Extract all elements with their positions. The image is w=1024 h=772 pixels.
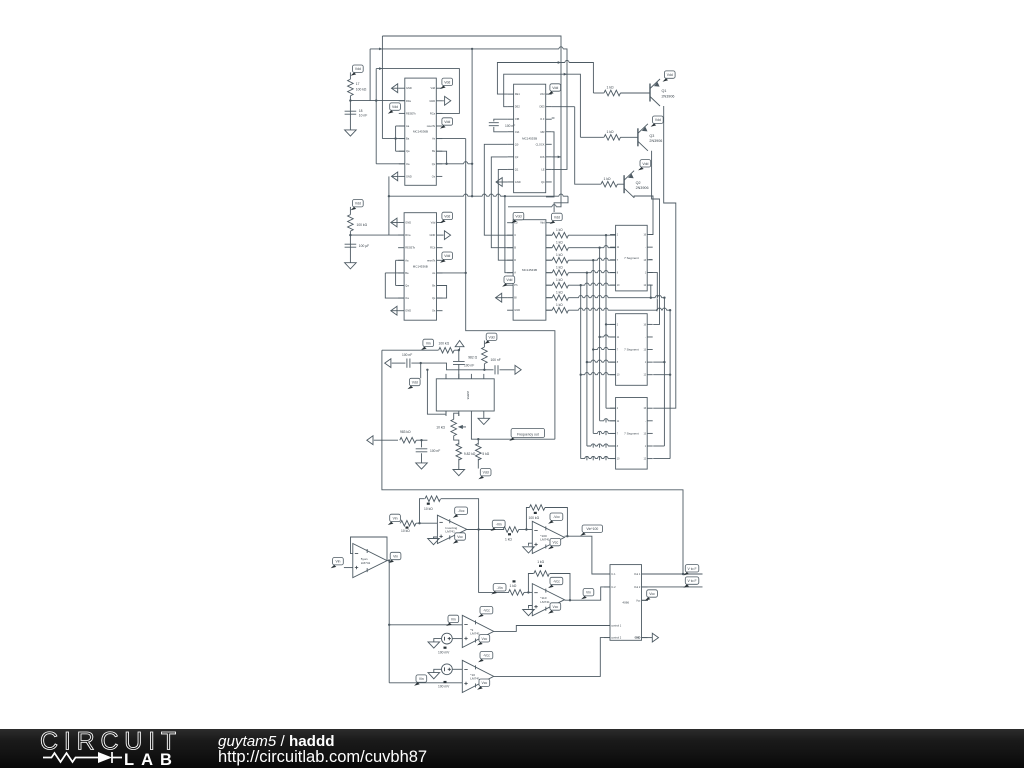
- svg-text:Vdd: Vdd: [431, 221, 436, 225]
- svg-text:100 nF: 100 nF: [505, 124, 515, 128]
- ground 983k cap: [416, 463, 428, 469]
- svg-text:LM555: LM555: [466, 391, 470, 400]
- resistor 1k segment c: [552, 257, 568, 263]
- wire IC2 DE1 loop: [497, 63, 561, 95]
- svg-text:Vdd: Vdd: [355, 202, 361, 206]
- capacitor C 100nF input: [407, 359, 410, 368]
- wire Vin row: [382, 349, 439, 351]
- svg-text:10 kΩ: 10 kΩ: [436, 426, 445, 430]
- ground op2 plus: [434, 537, 438, 539]
- svg-text:1 kΩ: 1 kΩ: [556, 266, 563, 270]
- svg-text:2N3906: 2N3906: [649, 139, 662, 143]
- op-amp U10 LM741 x10: [462, 660, 493, 692]
- svg-text:Aa: Aa: [406, 124, 410, 128]
- net flag -Vin op4: [491, 584, 506, 595]
- svg-text:Vin: Vin: [393, 516, 398, 520]
- resistor 1k segment d: [552, 270, 568, 276]
- net flag Vin op2 in: [388, 514, 401, 525]
- resistor 100k op3 fb: [529, 505, 545, 511]
- wire IC2 Q2 to IC4 B: [491, 157, 513, 248]
- net flag Frequency out: [509, 429, 544, 441]
- wire op5 out to control1: [494, 626, 610, 632]
- svg-text:Q2: Q2: [636, 181, 641, 185]
- power flag Vdd IC1 resetTs: [440, 118, 453, 129]
- power flag Vdd IC3: [440, 212, 453, 223]
- wire to 7seg2 pin 0: [606, 323, 616, 325]
- svg-text:Ba: Ba: [406, 137, 410, 141]
- svg-text:C: C: [514, 233, 516, 237]
- svg-text:-Vcc: -Vcc: [458, 509, 465, 513]
- svg-text:LAB: LAB: [124, 751, 179, 769]
- power flag Vcc op2: [453, 533, 466, 544]
- power flag Vdd IC1 pin Vdd: [440, 78, 453, 89]
- svg-text:BI: BI: [514, 296, 517, 300]
- power flag Vdd 555 left: [408, 378, 421, 389]
- wire bus y196: [389, 195, 568, 197]
- svg-text:-Vin: -Vin: [496, 522, 502, 526]
- wire 7seg1 pin1 hook: [649, 273, 658, 311]
- capacitor 100uF IC3: [345, 244, 357, 247]
- svg-text:1 kΩ: 1 kΩ: [510, 584, 517, 588]
- wire top rail B to IC2 LE: [370, 49, 567, 169]
- wire IC2 DE3 to Q2 base: [575, 107, 601, 185]
- power flag Vcc op6: [477, 679, 490, 690]
- transistor Q1 2N3906: [650, 79, 674, 106]
- wire op4 fb right: [550, 574, 570, 601]
- svg-text:Vdd: Vdd: [483, 471, 489, 475]
- wire op6 out to control2: [494, 638, 610, 677]
- wire segment c row: [568, 259, 615, 261]
- wire op1 feedback: [351, 537, 388, 561]
- svg-text:-Vcc: -Vcc: [483, 609, 490, 613]
- svg-text:2N3906: 2N3906: [636, 186, 649, 190]
- wire DE1 to Q1 base: [561, 63, 593, 94]
- svg-text:Vin: Vin: [393, 555, 398, 559]
- IC 555 timer box: [436, 379, 494, 411]
- wire input cap to 555 net: [411, 363, 484, 370]
- wire segment f vertical: [663, 298, 665, 446]
- wire bus vertical a: [605, 235, 607, 408]
- wire segment g row: [568, 309, 670, 311]
- svg-text:GND: GND: [429, 99, 435, 103]
- net flag Vin op4 out: [581, 589, 594, 600]
- svg-text:Q4: Q4: [541, 180, 545, 184]
- svg-text:Q0: Q0: [515, 142, 519, 146]
- capacitor C9 100nF plates: [489, 123, 499, 126]
- svg-text:Vdd: Vdd: [444, 214, 450, 218]
- svg-text:Vdd: Vdd: [489, 335, 495, 339]
- wire to 5k: [477, 439, 479, 445]
- wire Q1 base: [620, 92, 650, 94]
- display 7-segment D2: [610, 314, 653, 386]
- wire big loop to V-to-F: [382, 350, 683, 574]
- wire 7seg1 pin13 dash: [649, 259, 653, 261]
- net flag Vin op5: [446, 615, 459, 626]
- svg-text:2N3906: 2N3906: [662, 94, 675, 98]
- wire op2 out down to op4: [479, 530, 509, 593]
- svg-text:LM741: LM741: [540, 600, 550, 604]
- svg-text:OIA: OIA: [515, 130, 520, 134]
- resistor 10k op2 in: [400, 520, 416, 526]
- svg-text:Vcc: Vcc: [457, 535, 463, 539]
- wire segment e row: [568, 284, 615, 286]
- IC U1 MC14536B: [399, 78, 443, 185]
- resistor 1k op4 in: [508, 590, 524, 596]
- svg-text:Vdd: Vdd: [392, 105, 398, 109]
- svg-text:100 kΩ: 100 kΩ: [529, 516, 540, 520]
- svg-text:Vin: Vin: [586, 591, 591, 595]
- CircuitLab logo: [41, 730, 176, 772]
- svg-text:GND: GND: [406, 174, 412, 178]
- svg-text:Vin: Vin: [426, 341, 431, 345]
- power flag Vdd 5k: [478, 469, 491, 480]
- IC U3 MC14536B: [398, 213, 442, 321]
- wire to 7seg3 pin 0: [606, 407, 616, 409]
- wire Out1: [642, 573, 703, 575]
- wire IC3 Oa: [385, 273, 404, 298]
- resistor 1k segment e: [552, 282, 568, 288]
- ground: [428, 539, 440, 545]
- svg-text:RESETs: RESETs: [405, 246, 415, 250]
- svg-text:Q2: Q2: [515, 155, 519, 159]
- power flag Vdd R in IC3: [351, 200, 364, 211]
- wire branch to right column: [554, 196, 568, 212]
- capacitor C 100nF low: [416, 449, 428, 452]
- resistor 100k 555: [439, 347, 455, 353]
- svg-text:resetTs: resetTs: [427, 258, 436, 262]
- svg-text:10 kΩ: 10 kΩ: [424, 507, 433, 511]
- transistor Q2 2N3906: [624, 171, 648, 198]
- wire segment f to 7seg2: [653, 361, 664, 363]
- svg-text:Vcc: Vcc: [553, 541, 559, 545]
- resistor R17 100k: [348, 79, 354, 96]
- svg-text:V to F: V to F: [688, 567, 697, 571]
- wire op3 minus: [519, 529, 533, 531]
- wire op6 plus: [389, 682, 462, 684]
- port right 555 out: [515, 365, 521, 374]
- svg-text:MC14553B: MC14553B: [522, 136, 537, 140]
- wire R to cap/gnd: [349, 231, 351, 263]
- svg-text:LM741: LM741: [470, 632, 480, 636]
- ground IC1 RC: [345, 130, 357, 136]
- port GND IC1 right: [445, 96, 451, 105]
- power flag -Vcc op6: [478, 652, 493, 663]
- svg-text:DIS: DIS: [540, 155, 545, 159]
- port GND 4066: [652, 633, 658, 642]
- wire IC1 Qs to bus: [447, 163, 473, 165]
- svg-text:Ph: Ph: [514, 283, 518, 287]
- svg-text:In 1: In 1: [611, 572, 616, 576]
- footer bar: [0, 729, 1024, 768]
- svg-text:100 kΩ: 100 kΩ: [439, 342, 450, 346]
- wire rail x370: [369, 49, 371, 101]
- resistor 5k: [476, 443, 482, 460]
- svg-text:RCb: RCb: [430, 246, 436, 250]
- wire to cap 100nF low: [421, 440, 423, 447]
- power flag Vdd Q3: [651, 116, 664, 127]
- wire 983k input: [367, 436, 373, 445]
- svg-text:4066: 4066: [622, 600, 629, 604]
- svg-text:Vdd: Vdd: [430, 86, 435, 90]
- wire IC1 As to long vertical: [436, 138, 465, 140]
- net flag V to F 1: [683, 565, 698, 576]
- ground 555: [478, 418, 490, 424]
- wire vdd to R: [349, 207, 351, 215]
- svg-text:100 nF: 100 nF: [491, 358, 501, 362]
- wire Out2: [642, 586, 703, 588]
- svg-text:1 kΩ: 1 kΩ: [556, 253, 563, 257]
- wire bus to IC4 A: [505, 196, 513, 273]
- wire op3 fb right: [545, 508, 567, 537]
- svg-text:GND: GND: [635, 637, 641, 640]
- wire to 7seg2 pin 4: [581, 374, 616, 376]
- wire rail to IC1 Oa: [376, 163, 405, 165]
- wire segment g to 7seg3: [653, 458, 670, 460]
- ground op3 plus: [529, 543, 533, 546]
- svg-text:Out 2: Out 2: [634, 585, 641, 589]
- svg-text:-Vcc: -Vcc: [553, 580, 560, 584]
- wire 555 pin2 to pot: [458, 413, 460, 416]
- IC U11 4066 switch: [604, 565, 648, 641]
- svg-text:Aa: Aa: [405, 258, 409, 262]
- display 7-segment D1: [610, 225, 653, 291]
- svg-text:Vin: Vin: [451, 617, 456, 621]
- svg-text:1 kΩ: 1 kΩ: [556, 291, 563, 295]
- svg-text:10 kΩ: 10 kΩ: [401, 529, 410, 533]
- wire IC1 RCa loop: [376, 69, 459, 114]
- svg-text:7 Segment: 7 Segment: [624, 256, 639, 260]
- svg-text:GND: GND: [514, 308, 520, 312]
- svg-text:D: D: [514, 258, 516, 262]
- svg-text:5 kΩ: 5 kΩ: [482, 452, 489, 456]
- svg-text:-Vcc: -Vcc: [553, 515, 560, 519]
- IC U4 output pin stubs: [546, 234, 552, 236]
- svg-text:Vdd: Vdd: [444, 120, 450, 124]
- svg-text:Oa: Oa: [406, 162, 410, 166]
- wire IC1 Bs-Qs loop: [436, 151, 446, 164]
- power flag Vdd IC3 resetTs: [440, 252, 453, 263]
- svg-text:O.F: O.F: [540, 117, 545, 121]
- svg-text:100 nF: 100 nF: [402, 353, 412, 357]
- resistor 100k IC3: [348, 215, 354, 232]
- capacitor C 100nF IC2: [494, 119, 508, 121]
- svg-text:100 kΩ: 100 kΩ: [357, 223, 368, 227]
- op-amp U8 LM741 x110: [532, 584, 564, 616]
- wire IC3 Aa-Qa loop: [395, 260, 397, 285]
- wire to 7seg2 pin 2: [593, 349, 615, 351]
- svg-text:GND: GND: [515, 180, 521, 184]
- power flag Vdd R17: [351, 65, 364, 76]
- power flag Vdd IC4 Ph: [502, 276, 515, 287]
- svg-text:GND: GND: [406, 86, 412, 90]
- svg-text:100 kΩ: 100 kΩ: [356, 88, 367, 92]
- op-amp U7 LM741 x100: [532, 521, 564, 553]
- wire source to op5 plus: [452, 638, 462, 640]
- power flag Vdd Q1: [663, 71, 676, 82]
- wire Q1 collector to 7seg3 pin16: [653, 106, 676, 408]
- power flag Vcc op5: [477, 635, 490, 646]
- wire 4066 Vcc: [642, 599, 649, 601]
- wire segment g vertical: [669, 310, 671, 458]
- IC U2 MC14553B: [508, 84, 552, 193]
- wire bus vertical b: [599, 248, 601, 421]
- source V3 100mV: [442, 633, 453, 644]
- wire source to gnd: [434, 639, 442, 642]
- wire op4 minus: [524, 591, 532, 593]
- svg-text:-Vcc: -Vcc: [483, 654, 490, 658]
- resistor 1k segment f: [552, 295, 568, 301]
- svg-text:9.82 kΩ: 9.82 kΩ: [464, 452, 476, 456]
- wire IC3 As to vertical: [437, 272, 466, 274]
- resistor 982: [482, 347, 488, 364]
- svg-text:Vdd: Vdd: [355, 67, 361, 71]
- wire rail x382: [381, 36, 383, 139]
- svg-text:DE1: DE1: [515, 92, 521, 96]
- svg-text:Ba: Ba: [405, 271, 409, 275]
- wire source to op6 minus: [452, 668, 462, 670]
- svg-text:RCa: RCa: [430, 111, 436, 115]
- svg-text:DE3: DE3: [539, 105, 545, 109]
- transistor Q3 2N3906: [638, 124, 662, 151]
- wire 4066 gnd: [642, 637, 653, 639]
- svg-text:Qa: Qa: [405, 284, 409, 288]
- wire to 7seg2 pin 1: [600, 336, 616, 338]
- svg-text:Vin: Vin: [419, 677, 424, 681]
- wire to 7seg2 pin 3: [587, 361, 616, 363]
- resistor 1k segment b: [552, 245, 568, 251]
- net flag V to F 2: [683, 577, 698, 588]
- resistor 1k Q1 base: [604, 90, 621, 96]
- svg-text:MC14536B: MC14536B: [413, 130, 428, 134]
- source V4 100mV: [442, 664, 453, 675]
- svg-text:Vcc: Vcc: [482, 637, 488, 641]
- svg-text:-Vin: -Vin: [497, 586, 503, 590]
- op-amp U5 LM741 buffer: [353, 544, 387, 578]
- svg-text:Vdd: Vdd: [655, 118, 661, 122]
- capacitor 100nF under port: [458, 350, 460, 361]
- svg-text:Vdd: Vdd: [444, 80, 450, 84]
- svg-text:982 Ω: 982 Ω: [468, 355, 477, 359]
- wire bus vertical e: [580, 285, 582, 458]
- svg-text:100 µF: 100 µF: [359, 244, 369, 248]
- wire to IC1 RSTa: [350, 100, 404, 102]
- resistor 9.82k: [456, 443, 462, 460]
- svg-text:100 mV: 100 mV: [438, 651, 450, 655]
- svg-text:MR: MR: [540, 130, 544, 134]
- svg-text:17: 17: [356, 82, 360, 86]
- wire segment b row: [568, 247, 615, 249]
- url: [218, 748, 427, 767]
- power flag Vdd Q2: [638, 160, 651, 171]
- wire bus vertical d: [586, 273, 588, 446]
- wire op2 out to op3 in: [466, 529, 505, 531]
- wire bus vertical c: [592, 260, 594, 433]
- pot wiper arrow: [459, 426, 466, 429]
- svg-text:Out 1: Out 1: [634, 572, 641, 576]
- power flag Vdd IC2: [548, 84, 561, 95]
- svg-text:100 nF: 100 nF: [430, 449, 440, 453]
- svg-text:GND: GND: [405, 221, 411, 225]
- svg-text:resetTs: resetTs: [427, 124, 436, 128]
- wire IC2 MR hook: [546, 132, 554, 197]
- wire IC3 Bs-Qs loop: [437, 286, 447, 299]
- svg-text:18: 18: [359, 109, 363, 113]
- power flag Vdd 982: [484, 333, 497, 344]
- svg-text:LE: LE: [541, 167, 544, 171]
- wire 555 pin4 gnd: [483, 416, 485, 418]
- svg-text:In 2: In 2: [611, 585, 616, 589]
- port up 555: [455, 341, 464, 347]
- wire Q3 base: [620, 136, 638, 138]
- svg-text:Vdd: Vdd: [540, 221, 545, 225]
- svg-text:1 kΩ: 1 kΩ: [505, 537, 512, 541]
- svg-text:A: A: [514, 271, 516, 275]
- net flag Vin op1 in: [331, 558, 344, 569]
- svg-text:Qa: Qa: [406, 149, 410, 153]
- svg-text:983 kΩ: 983 kΩ: [400, 430, 411, 434]
- power flag -Vcc op3: [548, 513, 563, 524]
- wire 7seg1 pin12 hook: [649, 285, 651, 298]
- wire rail to IC1 Ba: [382, 138, 404, 140]
- wire DE2 to Q3 base: [567, 74, 580, 137]
- svg-text:1 kΩ: 1 kΩ: [556, 228, 563, 232]
- wire op2 fb up: [420, 499, 425, 524]
- ground: [523, 547, 535, 553]
- wire to 7seg3 pin 4: [581, 458, 616, 460]
- svg-text:MC14543B: MC14543B: [522, 268, 537, 272]
- wire long vertical x465 to freq node: [466, 139, 555, 440]
- wire op3 out to In1: [565, 536, 611, 574]
- svg-text:Vcc: Vcc: [482, 681, 488, 685]
- svg-text:Q1: Q1: [662, 89, 667, 93]
- wire op2 fb right: [441, 499, 479, 530]
- ground 9.82k: [453, 470, 465, 476]
- svg-text:Vdd: Vdd: [667, 73, 673, 77]
- power flag -Vcc op4: [548, 577, 563, 588]
- svg-text:Vdd: Vdd: [552, 86, 558, 90]
- wire vdd to R17: [349, 72, 351, 79]
- svg-text:DE2: DE2: [515, 105, 521, 109]
- svg-text:1 kΩ: 1 kΩ: [556, 241, 563, 245]
- wire pot to 9.82k: [454, 436, 459, 445]
- port GND IC3 bottom-left: [391, 306, 397, 315]
- svg-text:Vin*100: Vin*100: [586, 527, 598, 531]
- ground source op6: [428, 673, 440, 679]
- wire segment f row: [568, 297, 664, 299]
- wire op4 fb up: [528, 574, 533, 593]
- power flag -Vcc op5: [478, 607, 493, 618]
- resistor 1k op3 in: [503, 527, 519, 533]
- svg-text:7 Segment: 7 Segment: [624, 348, 639, 352]
- capacitor C18 10nF: [345, 111, 357, 114]
- svg-text:RESETs: RESETs: [406, 111, 416, 115]
- wire hops bus y196: [464, 195, 468, 198]
- wire Q2 collector to 7seg1 pin16: [634, 196, 653, 235]
- wire rail x388: [388, 176, 390, 235]
- wire IC2 Q0 to IC4 C: [484, 144, 513, 235]
- power flag -Vcc op2: [453, 507, 468, 518]
- wire op3 fb up: [526, 508, 529, 530]
- wire to Vdd tag 555: [420, 363, 422, 378]
- svg-text:LM741: LM741: [470, 677, 480, 681]
- svg-text:1 kΩ: 1 kΩ: [604, 177, 612, 181]
- resistor 1k segment a: [552, 232, 568, 238]
- capacitor C 100nF out: [495, 365, 498, 374]
- svg-text:control 1: control 1: [611, 624, 622, 628]
- port GND IC3 top-left: [391, 218, 397, 227]
- wire hops top rails: [559, 47, 563, 50]
- net flag Vin op6: [414, 675, 427, 686]
